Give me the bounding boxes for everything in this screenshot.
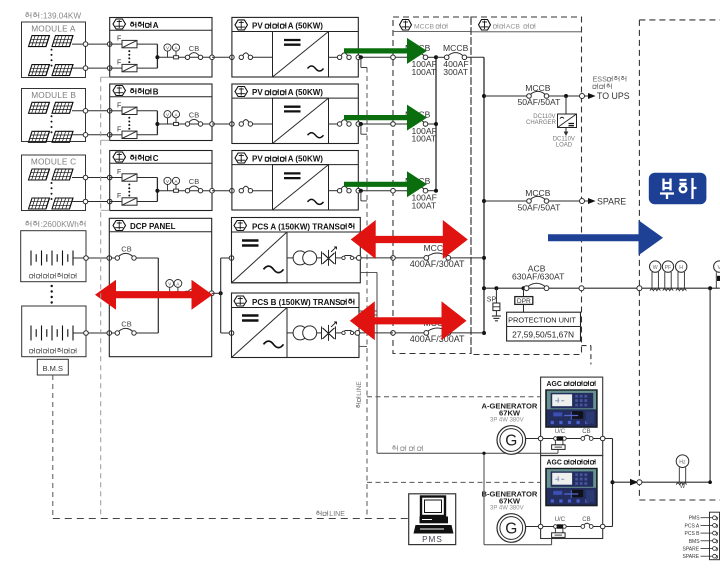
svg-text:LINE: LINE bbox=[356, 381, 363, 396]
panel 실외 ACB 판넬 dashed enclosure bbox=[471, 17, 591, 364]
dots more strings B bbox=[128, 117, 130, 130]
svg-text:U/C: U/C bbox=[555, 429, 566, 435]
svg-text:100AT: 100AT bbox=[412, 200, 437, 210]
svg-text:ACB: ACB bbox=[506, 24, 520, 31]
svg-text:PCS B: PCS B bbox=[685, 531, 701, 537]
PV module box MODULE B bbox=[22, 89, 86, 143]
generator A breaker U/C and CB bbox=[526, 429, 613, 449]
wire inverter 1 to MCCB bbox=[358, 55, 409, 60]
PCS B internal transformer bbox=[287, 326, 317, 340]
svg-text:MCCB: MCCB bbox=[525, 188, 551, 198]
junction box 접속반B bbox=[110, 84, 212, 141]
battery bank 1 리튬이온축전지 bbox=[21, 231, 86, 282]
voltmeter V C bbox=[164, 177, 171, 190]
red arrow PCS A bidirectional flow bbox=[351, 220, 468, 259]
protection unit 27,59,50/51,67N bbox=[507, 312, 581, 341]
ammeter A with CT C bbox=[172, 177, 179, 192]
wire PCS A output to MCCB bbox=[360, 257, 393, 259]
breaker MCCB 400AF/300AT main PV bbox=[436, 43, 484, 77]
PV inverter U1 PV 인버터 A (50KW) bbox=[232, 17, 358, 77]
svg-text:DCP PANEL: DCP PANEL bbox=[130, 222, 176, 231]
green arrow PV power flow row 3 bbox=[344, 171, 427, 197]
svg-text:PMS: PMS bbox=[422, 535, 443, 544]
svg-text:400AF/300AT: 400AF/300AT bbox=[410, 334, 465, 344]
comm stub inverter 1 bbox=[361, 57, 367, 67]
svg-text:F: F bbox=[117, 36, 121, 43]
svg-text:PCS B (150KW) TRANS: PCS B (150KW) TRANS bbox=[252, 298, 341, 307]
svg-text:V: V bbox=[166, 46, 169, 51]
svg-text:F: F bbox=[117, 169, 121, 176]
relay DPR bbox=[515, 288, 533, 312]
breaker MCCB 100AF/100AT row 1 bbox=[405, 43, 437, 77]
svg-text:ESS: ESS bbox=[593, 75, 608, 84]
breaker CB C bbox=[185, 177, 202, 193]
svg-text:PCS A: PCS A bbox=[685, 523, 700, 529]
svg-text:67KW: 67KW bbox=[499, 496, 521, 505]
wire SPARE with arrow bbox=[585, 197, 627, 207]
meter V right edge bbox=[714, 261, 720, 288]
svg-text:A (50KW): A (50KW) bbox=[288, 22, 324, 31]
svg-text:100AT: 100AT bbox=[412, 134, 437, 144]
svg-text:CB: CB bbox=[189, 177, 199, 186]
comm line 통신LINE horizontal to PMS bbox=[53, 511, 409, 519]
wire inverter 3 to MCCB bbox=[358, 188, 409, 193]
panel load dashed enclosure bbox=[639, 20, 719, 500]
svg-text::2600KWh: :2600KWh bbox=[41, 220, 80, 229]
node DCP bus bbox=[156, 258, 211, 333]
PCS A thyristor switch bbox=[317, 247, 342, 266]
comm dashed line from BMS bbox=[52, 375, 54, 519]
fuse F2 A bbox=[110, 60, 137, 72]
fuse F2 C bbox=[110, 193, 137, 205]
svg-text:CB: CB bbox=[582, 429, 590, 435]
junction box 접속반A bbox=[110, 18, 212, 78]
dots more batteries bbox=[51, 285, 53, 304]
load label 부하 blue button bbox=[649, 173, 707, 204]
svg-text:W: W bbox=[653, 265, 658, 271]
signal wire 접점신호 horizontal bbox=[377, 445, 558, 544]
breaker ACB 630AF/630AT bbox=[512, 264, 565, 291]
PV module box MODULE A bbox=[22, 22, 86, 78]
svg-text:CB: CB bbox=[121, 320, 131, 329]
breaker CB battery1 bbox=[115, 245, 158, 261]
svg-text:SPARE: SPARE bbox=[683, 554, 700, 560]
DCP meters V A and CB bbox=[166, 280, 214, 296]
inverter 3 output breaker bbox=[329, 186, 361, 193]
inverter 1 input breaker bbox=[239, 53, 272, 60]
string bus node C bbox=[137, 178, 212, 202]
svg-text:G: G bbox=[505, 433, 517, 450]
svg-text:A: A bbox=[175, 112, 178, 117]
inverter 3 input breaker bbox=[239, 186, 272, 193]
PCS A output contact bbox=[342, 256, 361, 261]
svg-text:F: F bbox=[117, 60, 121, 67]
svg-text:AGC: AGC bbox=[547, 381, 562, 388]
svg-text:F: F bbox=[117, 193, 121, 200]
node PV collector bus bbox=[434, 55, 438, 192]
fuse F1 B bbox=[110, 102, 137, 114]
svg-text:27,59,50/51,67N: 27,59,50/51,67N bbox=[512, 329, 574, 339]
svg-text:MODULE A: MODULE A bbox=[31, 24, 76, 34]
breaker MCCB 50AF/50AT spare bbox=[484, 188, 585, 212]
svg-text:PV: PV bbox=[252, 22, 263, 31]
svg-text:F: F bbox=[117, 102, 121, 109]
signal line vertical solid bbox=[359, 272, 377, 453]
wire junction box B output bbox=[210, 122, 235, 127]
svg-text:F: F bbox=[117, 126, 121, 133]
inverter 2 input breaker bbox=[239, 120, 272, 127]
svg-text:300AT: 300AT bbox=[443, 67, 468, 77]
wire TO UPS with arrow bbox=[585, 75, 630, 101]
svg-text:MCCB: MCCB bbox=[414, 24, 434, 31]
battery charger DC110V bbox=[526, 96, 577, 149]
wire module A string outputs bbox=[72, 42, 112, 71]
svg-text:50AF/50AT: 50AF/50AT bbox=[518, 97, 562, 107]
power conditioner PCS A bbox=[232, 218, 361, 283]
fuse F2 B bbox=[110, 126, 137, 138]
wire battery2 to DCP bbox=[73, 331, 117, 336]
svg-text:PROTECTION UNIT: PROTECTION UNIT bbox=[508, 316, 576, 325]
generator B symbol G bbox=[497, 514, 526, 543]
green arrow PV power flow row 1 bbox=[344, 38, 427, 64]
svg-text:Hz: Hz bbox=[679, 460, 686, 466]
PCS B thyristor switch bbox=[317, 322, 342, 341]
breaker MCCB 400AF/300AT PCS A bbox=[391, 243, 484, 269]
wire battery1 to DCP bbox=[73, 256, 117, 261]
svg-text:SPARE: SPARE bbox=[597, 197, 626, 207]
svg-text:A (50KW): A (50KW) bbox=[288, 155, 324, 164]
junction box 접속반C bbox=[110, 151, 212, 211]
PCS A internal transformer bbox=[287, 251, 317, 265]
svg-text:A: A bbox=[175, 179, 178, 184]
PV inverter U2 PV 인버터 A (50KW) bbox=[232, 84, 358, 144]
PMS computer bbox=[409, 494, 456, 545]
svg-text:TO UPS: TO UPS bbox=[597, 91, 630, 101]
meter Hz generator line bbox=[676, 455, 689, 490]
svg-text:W: W bbox=[680, 484, 686, 490]
wire PCS B output to MCCB bbox=[359, 332, 393, 334]
ammeter A with CT B bbox=[172, 111, 179, 126]
inverter 1 output breaker bbox=[329, 53, 361, 60]
svg-text:A (50KW): A (50KW) bbox=[288, 88, 324, 97]
breaker MCCB 100AF/100AT row 3 bbox=[405, 176, 437, 210]
PV module box MODULE C bbox=[22, 155, 86, 211]
wire DCP to PCS split bbox=[212, 256, 234, 336]
svg-text:MCCB: MCCB bbox=[525, 83, 551, 93]
svg-text:PCS A (150KW) TRANS: PCS A (150KW) TRANS bbox=[252, 222, 341, 231]
comm dashed line from junction boxes bbox=[101, 77, 110, 518]
svg-text:630AF/630AT: 630AF/630AT bbox=[512, 272, 565, 282]
svg-text:400AF/300AT: 400AF/300AT bbox=[410, 259, 465, 269]
svg-text:3P 4W 380V: 3P 4W 380V bbox=[490, 418, 524, 424]
svg-text:PF: PF bbox=[665, 265, 672, 271]
svg-text:A: A bbox=[175, 46, 178, 51]
panel DCP PANEL bbox=[109, 218, 211, 356]
svg-text:CB: CB bbox=[189, 44, 199, 53]
svg-text:PMS: PMS bbox=[689, 516, 701, 522]
svg-text:100AT: 100AT bbox=[412, 67, 437, 77]
comm stub inverter 3 bbox=[361, 191, 367, 201]
breaker MCCB 100AF/100AT row 2 bbox=[405, 110, 437, 144]
svg-text:AGC: AGC bbox=[547, 460, 562, 467]
svg-text:CB: CB bbox=[582, 517, 590, 523]
svg-text:G: G bbox=[505, 521, 517, 538]
svg-text:PV: PV bbox=[252, 155, 263, 164]
svg-text:B.M.S: B.M.S bbox=[43, 364, 63, 373]
battery bank 2 리튬이온축전지 bbox=[22, 306, 86, 357]
comm dashed to AGC B bbox=[367, 481, 541, 483]
wire main bus to load bbox=[484, 286, 720, 291]
svg-text:CB: CB bbox=[189, 111, 199, 120]
generator A labels bbox=[482, 401, 538, 423]
ammeter A with CT A bbox=[172, 44, 179, 59]
svg-text:C: C bbox=[153, 154, 159, 163]
comm line vertical dashed 통신 bbox=[366, 68, 368, 519]
svg-text:A: A bbox=[176, 282, 179, 287]
comm dashed to AGC A bbox=[367, 396, 541, 398]
fuse F1 C bbox=[110, 169, 137, 181]
svg-text:MODULE C: MODULE C bbox=[31, 157, 76, 167]
breaker CB B bbox=[185, 111, 202, 127]
inverter 2 output breaker bbox=[329, 120, 361, 127]
svg-text:B: B bbox=[153, 87, 159, 96]
AGC controller box B AGC 운전제어반 bbox=[541, 456, 603, 539]
comm stub inverter 2 bbox=[361, 124, 367, 134]
red arrow PCS B bidirectional flow bbox=[350, 301, 467, 340]
svg-text:BMS: BMS bbox=[689, 539, 701, 545]
svg-text:MCCB: MCCB bbox=[443, 43, 469, 53]
PV inverter U3 PV 인버터 A (50KW) bbox=[232, 151, 358, 211]
svg-text:SPARE: SPARE bbox=[683, 547, 700, 553]
svg-text:U/C: U/C bbox=[555, 517, 566, 523]
blue arrow to load bbox=[548, 220, 663, 255]
svg-text:V: V bbox=[166, 179, 169, 184]
surge protector SP with ground bbox=[487, 288, 501, 321]
svg-text:H: H bbox=[679, 265, 683, 271]
wire inverter 2 to MCCB bbox=[358, 122, 409, 127]
svg-text:V: V bbox=[168, 282, 171, 287]
fuse F1 A bbox=[110, 36, 137, 48]
svg-text:CB: CB bbox=[121, 245, 131, 254]
PCS B output contact bbox=[342, 331, 360, 336]
voltmeter V A bbox=[164, 44, 171, 57]
string bus node B bbox=[137, 111, 212, 135]
breaker CB battery2 bbox=[115, 320, 158, 336]
battery management system B.M.S bbox=[37, 359, 68, 375]
dots more strings A bbox=[128, 50, 130, 63]
voltmeter V B bbox=[164, 111, 171, 124]
terminal block signal outputs bbox=[683, 512, 720, 560]
svg-text:3P 4W 380V: 3P 4W 380V bbox=[490, 506, 524, 512]
capacity label 139.04KW bbox=[26, 12, 82, 21]
red arrow battery bidirectional flow bbox=[95, 280, 213, 310]
svg-text:LINE: LINE bbox=[329, 511, 345, 518]
generator B labels bbox=[482, 489, 538, 511]
generator B breaker U/C and CB bbox=[526, 517, 613, 537]
capacity label 2600KWh bbox=[26, 220, 85, 229]
wire module B string outputs bbox=[72, 109, 112, 138]
generator A symbol G bbox=[497, 426, 526, 455]
string bus node A bbox=[137, 44, 212, 68]
svg-text:LOAD: LOAD bbox=[556, 143, 573, 149]
power conditioner PCS B bbox=[232, 293, 360, 358]
AGC controller box A AGC 운전제어반 bbox=[541, 377, 603, 455]
svg-text:SP: SP bbox=[487, 296, 497, 303]
svg-text:CHARGER: CHARGER bbox=[526, 120, 557, 126]
breaker MCCB 50AF/50AT to UPS bbox=[484, 83, 585, 107]
wire module C string outputs bbox=[72, 175, 112, 204]
svg-text:A: A bbox=[153, 21, 159, 30]
node ACB panel vertical bus bbox=[482, 57, 486, 335]
wire generator bus to load bbox=[611, 288, 712, 526]
wire junction box A output bbox=[210, 55, 235, 60]
label 통신LINE vertical bbox=[356, 381, 363, 408]
svg-text:DPR: DPR bbox=[517, 298, 531, 305]
dots more strings C bbox=[128, 184, 130, 197]
meters W PF H on main bus bbox=[650, 261, 661, 291]
svg-text:67KW: 67KW bbox=[499, 408, 521, 417]
svg-text:50AF/50AT: 50AF/50AT bbox=[518, 202, 562, 212]
green arrow PV power flow row 2 bbox=[344, 105, 427, 131]
svg-text:V: V bbox=[166, 112, 169, 117]
svg-text::139.04KW: :139.04KW bbox=[41, 12, 82, 21]
svg-text:MODULE B: MODULE B bbox=[31, 90, 76, 100]
svg-text:PV: PV bbox=[252, 88, 263, 97]
panel MCCB 판넬 dashed enclosure bbox=[393, 17, 471, 354]
breaker MCCB 400AF/300AT PCS B bbox=[391, 318, 484, 344]
wire junction box C output bbox=[210, 188, 235, 193]
breaker CB A bbox=[185, 44, 202, 60]
